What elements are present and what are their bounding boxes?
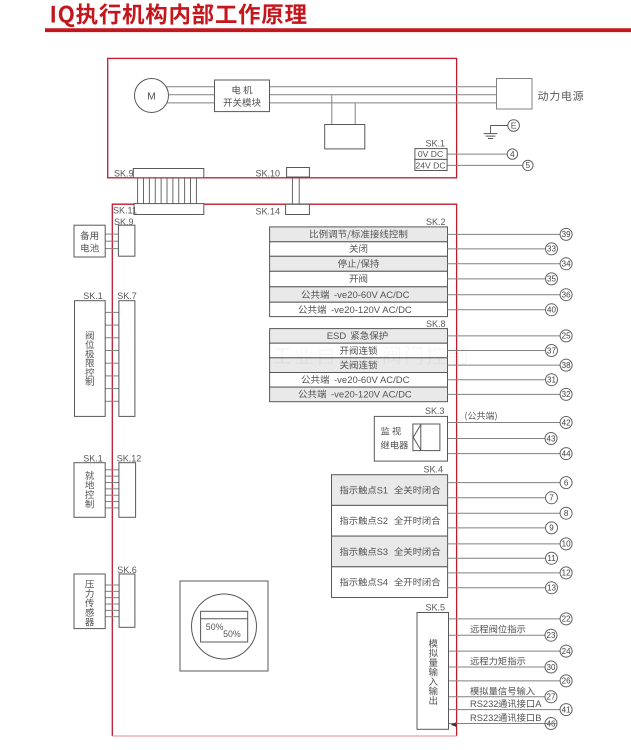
local control box 就地控制: [74, 463, 105, 518]
svg-text:23: 23: [547, 631, 556, 640]
svg-text:32: 32: [562, 390, 571, 399]
terminal 36: [560, 289, 572, 301]
svg-text:开关模块: 开关模块: [223, 95, 262, 109]
wire to terminal 44: [448, 453, 561, 455]
terminal 44: [560, 448, 572, 460]
svg-text:出: 出: [428, 693, 438, 707]
svg-text:SK.10: SK.10: [256, 168, 281, 178]
svg-text:37: 37: [547, 346, 556, 355]
wire to terminal 9: [448, 527, 546, 529]
wires valve limit to SK.7: [105, 311, 119, 313]
wire motor phase 3: [152, 102, 497, 104]
svg-text:8: 8: [564, 509, 569, 518]
svg-text:SK.4: SK.4: [423, 464, 443, 474]
position indicator circle: [192, 594, 257, 659]
wire to terminal 23: [449, 634, 546, 636]
svg-text:43: 43: [547, 434, 556, 443]
svg-text:6: 6: [564, 478, 569, 487]
svg-text:全开时闭合: 全开时闭合: [394, 513, 441, 527]
wire 0V DC to terminal 4: [447, 153, 507, 155]
svg-text:26: 26: [562, 677, 571, 686]
svg-text:9: 9: [549, 524, 554, 533]
wires battery to SK.9: [105, 233, 118, 235]
svg-text:M: M: [147, 91, 156, 103]
svg-text:制: 制: [85, 496, 95, 510]
terminal 42: [560, 417, 572, 429]
svg-text:制: 制: [85, 374, 95, 388]
SK.4 row 指示触点S2 全开时闭合: [332, 505, 448, 536]
wire to terminal 34: [448, 263, 561, 265]
svg-text:12: 12: [562, 569, 571, 578]
svg-text:24V DC: 24V DC: [415, 160, 445, 170]
wire to terminal 36: [448, 294, 561, 296]
wire to terminal 41: [449, 709, 561, 711]
svg-text:公共端: 公共端: [301, 372, 330, 386]
svg-text:公共端: 公共端: [301, 287, 330, 301]
terminal 10: [560, 538, 572, 550]
svg-text:SK.5: SK.5: [425, 603, 445, 613]
wire to terminal 10: [448, 543, 560, 545]
connector SK.11 bottom bar: [134, 204, 204, 215]
svg-text:40: 40: [547, 306, 556, 315]
analog io box 模拟量输入输出: [417, 613, 449, 730]
svg-text:开阀: 开阀: [349, 271, 368, 285]
wire to terminal 12: [448, 572, 560, 574]
power section red frame: [108, 58, 457, 177]
svg-text:42: 42: [562, 418, 571, 427]
SK.4 row 指示触点S3 全关时闭合: [332, 536, 448, 567]
wire to terminal 26: [449, 680, 561, 682]
svg-text:(公共端): (公共端): [465, 409, 498, 422]
wire to terminal 38: [448, 364, 561, 366]
terminal 13: [546, 582, 558, 594]
wire to terminal 42: [448, 422, 561, 424]
wire to terminal 32: [448, 393, 561, 395]
svg-text:远程力矩指示: 远程力矩指示: [470, 654, 526, 668]
wire earth horizontal: [491, 125, 508, 127]
capacitor box: [325, 125, 365, 149]
svg-text:通讯接口: 通讯接口: [498, 710, 535, 724]
svg-text:50%: 50%: [223, 629, 241, 639]
svg-text:7: 7: [549, 494, 554, 503]
connector SK.10 pins: [291, 177, 293, 204]
wire to terminal 46: [449, 723, 546, 725]
wire drop to capacitor right: [354, 103, 356, 125]
svg-text:SK.1: SK.1: [425, 138, 445, 148]
wires pressure sensor to SK.6: [105, 584, 119, 586]
svg-text:SK.8: SK.8: [426, 319, 446, 329]
terminal 40: [546, 304, 558, 316]
connector SK.6 box: [119, 574, 135, 627]
svg-text:SK.11: SK.11: [113, 205, 137, 215]
svg-text:IQ执行机构内部工作原理: IQ执行机构内部工作原理: [50, 0, 308, 29]
SK.2 row 公共端 -ve20-120V AC/DC: [270, 302, 448, 316]
position indicator window: [201, 611, 248, 642]
svg-text:SK.7: SK.7: [117, 291, 137, 301]
svg-text:34: 34: [562, 260, 571, 269]
relay symbol: [413, 424, 440, 451]
wire to terminal 8: [448, 512, 560, 514]
wires local control to SK.12: [105, 469, 119, 471]
wire to terminal 40: [448, 309, 546, 311]
terminal 12: [560, 567, 572, 579]
SK.8 row 公共端 -ve20-60V AC/DC: [270, 373, 448, 388]
SK.4 row 指示触点S1 全关时闭合: [332, 475, 448, 506]
terminal 37: [546, 345, 558, 357]
main section red frame (left/top/right): [112, 204, 456, 736]
wire to terminal 43: [448, 438, 546, 440]
svg-text:指示触点: 指示触点: [340, 513, 377, 527]
wire 24V DC to terminal 5: [447, 164, 523, 166]
0V DC box: [415, 149, 447, 160]
terminal 39: [560, 228, 572, 240]
wire to terminal 31: [448, 379, 546, 381]
terminal 30: [545, 661, 557, 673]
wire to terminal 11: [448, 557, 546, 559]
svg-text:35: 35: [547, 275, 556, 284]
wire to terminal 13: [448, 587, 546, 589]
svg-text:关闭: 关闭: [349, 241, 368, 255]
connector SK.14 bottom bar: [286, 204, 310, 214]
SK.2 row 开阀: [270, 271, 448, 287]
svg-text:S3: S3: [377, 547, 388, 557]
svg-text:41: 41: [562, 705, 571, 714]
svg-text:-ve20-60V AC/DC: -ve20-60V AC/DC: [334, 290, 410, 301]
svg-text:E: E: [511, 121, 517, 131]
wire drop to capacitor left: [331, 95, 333, 125]
svg-text:指示触点: 指示触点: [340, 482, 377, 496]
svg-text:RS232: RS232: [470, 699, 498, 709]
SK.8 row 公共端 -ve20-120V AC/DC: [270, 387, 448, 402]
terminal 33: [546, 243, 558, 255]
svg-text:50%: 50%: [206, 622, 224, 632]
connector SK.7 box: [119, 301, 135, 417]
wire to terminal 24: [449, 650, 561, 652]
svg-text:S2: S2: [377, 516, 388, 526]
svg-text:25: 25: [562, 332, 571, 341]
main section red frame bottom edge: [112, 735, 456, 737]
terminal 24: [560, 645, 572, 657]
svg-text:SK.6: SK.6: [117, 565, 137, 575]
svg-text:动力电源: 动力电源: [538, 88, 585, 104]
svg-text:全关时闭合: 全关时闭合: [394, 544, 441, 558]
wire to terminal 7: [448, 497, 546, 499]
title underline: [45, 28, 631, 32]
terminal 41: [560, 704, 572, 716]
terminal 31: [546, 374, 558, 386]
terminal 32: [560, 388, 572, 400]
wire to terminal 35: [448, 278, 546, 280]
svg-text:工业自动化阀门控制: 工业自动化阀门控制: [272, 340, 470, 369]
wire to terminal 25: [448, 335, 561, 337]
connector SK.9 top bar: [133, 169, 204, 178]
connector SK.10 top bar: [287, 168, 310, 178]
SK.2 row 比例调节/标准接线控制: [270, 227, 448, 242]
svg-text:全关时闭合: 全关时闭合: [394, 482, 441, 496]
SK.2 row 停止/保持: [270, 256, 448, 271]
SK.2 row 公共端 -ve20-60V AC/DC: [270, 287, 448, 302]
wire to terminal 6: [448, 482, 560, 484]
svg-text:-ve20-120V AC/DC: -ve20-120V AC/DC: [331, 390, 412, 401]
wire to terminal 33: [448, 248, 546, 250]
terminal 4: [507, 149, 517, 159]
svg-text:SK.9: SK.9: [114, 168, 134, 178]
svg-text:A: A: [535, 699, 542, 709]
svg-text:31: 31: [547, 376, 556, 385]
terminal 25: [560, 330, 572, 342]
svg-text:27: 27: [547, 693, 556, 702]
svg-text:13: 13: [547, 584, 556, 593]
svg-text:5: 5: [526, 161, 531, 170]
SK.8 row ESD 紧急保护: [270, 329, 448, 344]
connector SK.9/SK.11 hatch pins: [137, 178, 139, 204]
svg-text:电池: 电池: [80, 241, 100, 255]
svg-text:SK.1: SK.1: [83, 291, 103, 301]
svg-text:SK.3: SK.3: [425, 406, 445, 416]
wire across terminal 46: [545, 723, 558, 725]
24V DC box: [415, 159, 447, 170]
pressure sensor box 压力传感器: [74, 574, 105, 629]
svg-text:全开时闭合: 全开时闭合: [394, 574, 441, 588]
terminal 35: [546, 273, 558, 285]
terminal 5: [523, 160, 533, 170]
terminal 46: [545, 718, 557, 730]
ground symbol: [484, 133, 498, 135]
svg-text:0V DC: 0V DC: [418, 149, 443, 159]
svg-text:33: 33: [547, 245, 556, 254]
svg-text:指示触点: 指示触点: [340, 544, 377, 558]
svg-text:11: 11: [547, 554, 556, 563]
svg-text:-ve20-60V AC/DC: -ve20-60V AC/DC: [334, 375, 410, 386]
svg-text:24: 24: [562, 647, 571, 656]
position indicator window line: [201, 618, 248, 620]
svg-text:38: 38: [562, 361, 571, 370]
svg-text:RS232: RS232: [470, 713, 498, 723]
svg-text:停止/保持: 停止/保持: [338, 256, 380, 270]
wire to terminal 30: [449, 666, 546, 668]
svg-text:36: 36: [562, 291, 571, 300]
svg-text:-ve20-120V AC/DC: -ve20-120V AC/DC: [331, 305, 412, 316]
svg-text:通讯接口: 通讯接口: [498, 696, 535, 710]
terminal 26: [560, 675, 572, 687]
terminal 23: [545, 629, 557, 641]
svg-text:公共端: 公共端: [298, 387, 327, 401]
svg-text:44: 44: [562, 449, 571, 458]
svg-text:监 视: 监 视: [381, 424, 402, 438]
svg-text:30: 30: [547, 663, 556, 672]
svg-text:器: 器: [85, 614, 95, 628]
SK.8 row 开阀连锁: [270, 343, 448, 358]
wire to terminal 27: [449, 696, 546, 698]
svg-text:SK.2: SK.2: [426, 217, 446, 227]
connector SK.9 box: [118, 225, 134, 256]
svg-text:公共端: 公共端: [298, 302, 327, 316]
svg-text:B: B: [535, 713, 541, 723]
terminal 22: [560, 613, 572, 625]
connector SK.12 box: [119, 463, 136, 518]
battery box 备用电池: [74, 225, 105, 257]
terminal 43: [545, 433, 557, 445]
terminal 7: [546, 492, 558, 504]
monitor relay box 监视继电器: [374, 416, 447, 461]
svg-text:39: 39: [562, 230, 571, 239]
terminal 11: [546, 552, 558, 564]
SK.8 row 关阀连锁: [270, 358, 448, 373]
terminal 34: [560, 258, 572, 270]
wire motor phase 1: [152, 86, 497, 88]
valve limit control box 阀位极限控制: [75, 301, 106, 417]
svg-text:SK.14: SK.14: [256, 206, 281, 216]
svg-text:S4: S4: [377, 577, 388, 587]
SK.4 row 指示触点S4 全开时闭合: [332, 567, 448, 598]
arrow into analog io box: [451, 722, 457, 727]
svg-text:10: 10: [562, 540, 571, 549]
terminal 8: [560, 507, 572, 519]
terminal 6: [560, 477, 572, 489]
svg-text:比例调节/标准接线控制: 比例调节/标准接线控制: [309, 227, 408, 241]
svg-text:指示触点: 指示触点: [340, 574, 377, 588]
motor M: [135, 79, 169, 113]
terminal 9: [546, 522, 558, 534]
motor switch module box: [215, 80, 270, 112]
position indicator outer box: [180, 581, 268, 671]
wire earth vertical: [490, 126, 492, 134]
svg-text:继电器: 继电器: [381, 438, 410, 452]
svg-text:4: 4: [510, 150, 515, 159]
terminal 27: [545, 691, 557, 703]
wire to terminal 37: [448, 350, 546, 352]
terminal E: [508, 120, 520, 132]
svg-text:22: 22: [562, 615, 571, 624]
terminal 38: [560, 359, 572, 371]
wire motor phase 2: [152, 94, 497, 96]
power supply box: [497, 79, 533, 110]
SK.2 row 关闭: [270, 242, 448, 256]
wire to terminal 22: [449, 618, 561, 620]
svg-text:远程阀位指示: 远程阀位指示: [470, 622, 526, 636]
svg-text:S1: S1: [377, 485, 388, 495]
wire to terminal 39: [448, 233, 561, 235]
